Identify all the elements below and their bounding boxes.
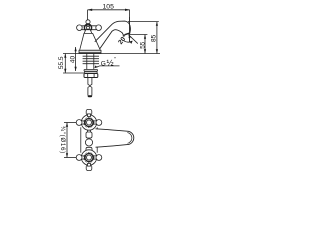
svg-text:½: ½	[107, 58, 114, 68]
svg-text:55: 55	[139, 41, 146, 49]
svg-text:40: 40	[70, 56, 77, 64]
svg-text:85: 85	[151, 34, 158, 42]
svg-text:¾″(Ø16): ¾″(Ø16)	[59, 126, 65, 154]
svg-text:55.5: 55.5	[58, 56, 65, 69]
svg-text:G: G	[101, 60, 106, 67]
svg-text:″: ″	[114, 57, 116, 63]
svg-text:105: 105	[103, 4, 115, 11]
